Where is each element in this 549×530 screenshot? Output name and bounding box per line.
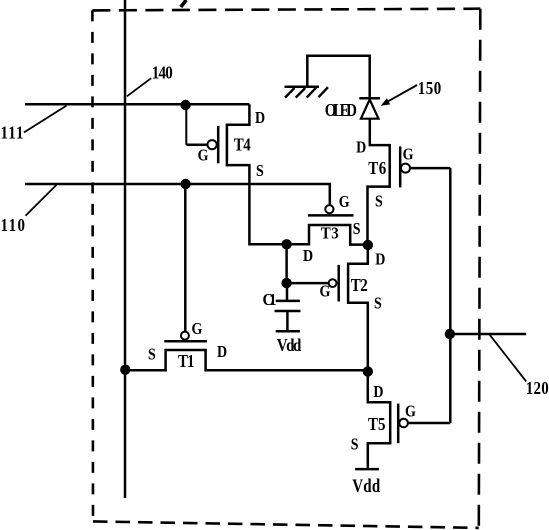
svg-text:T6: T6 — [368, 157, 386, 178]
svg-text:T4: T4 — [234, 134, 251, 154]
svg-text:120: 120 — [526, 378, 549, 398]
svg-text:111: 111 — [1, 122, 24, 142]
svg-text:G: G — [192, 320, 203, 338]
svg-text:G: G — [405, 402, 416, 420]
svg-text:T2: T2 — [351, 275, 368, 295]
svg-text:C1: C1 — [263, 291, 277, 309]
svg-text:Vdd: Vdd — [277, 335, 301, 355]
svg-text:Vdd: Vdd — [352, 475, 380, 496]
svg-text:T3: T3 — [321, 225, 339, 243]
svg-text:S: S — [374, 294, 382, 312]
svg-text:G: G — [339, 193, 350, 211]
svg-text:110: 110 — [1, 215, 26, 235]
svg-text:140: 140 — [152, 62, 173, 82]
svg-text:D: D — [255, 109, 265, 127]
svg-text:G: G — [198, 146, 209, 164]
svg-text:G: G — [320, 282, 331, 300]
svg-text:D: D — [356, 138, 366, 156]
svg-text:S: S — [148, 345, 156, 363]
svg-text:150: 150 — [418, 78, 442, 98]
svg-text:T1: T1 — [178, 351, 195, 371]
svg-text:D: D — [375, 250, 385, 268]
svg-text:D: D — [373, 383, 383, 401]
svg-text:T5: T5 — [368, 414, 386, 434]
svg-text:S: S — [351, 435, 359, 453]
svg-text:S: S — [353, 220, 361, 238]
svg-text:D: D — [303, 247, 313, 265]
svg-text:S: S — [256, 162, 264, 180]
svg-text:S: S — [375, 192, 383, 210]
svg-text:D: D — [217, 343, 227, 361]
svg-text:OLED: OLED — [325, 100, 357, 121]
svg-text:G: G — [403, 145, 414, 163]
